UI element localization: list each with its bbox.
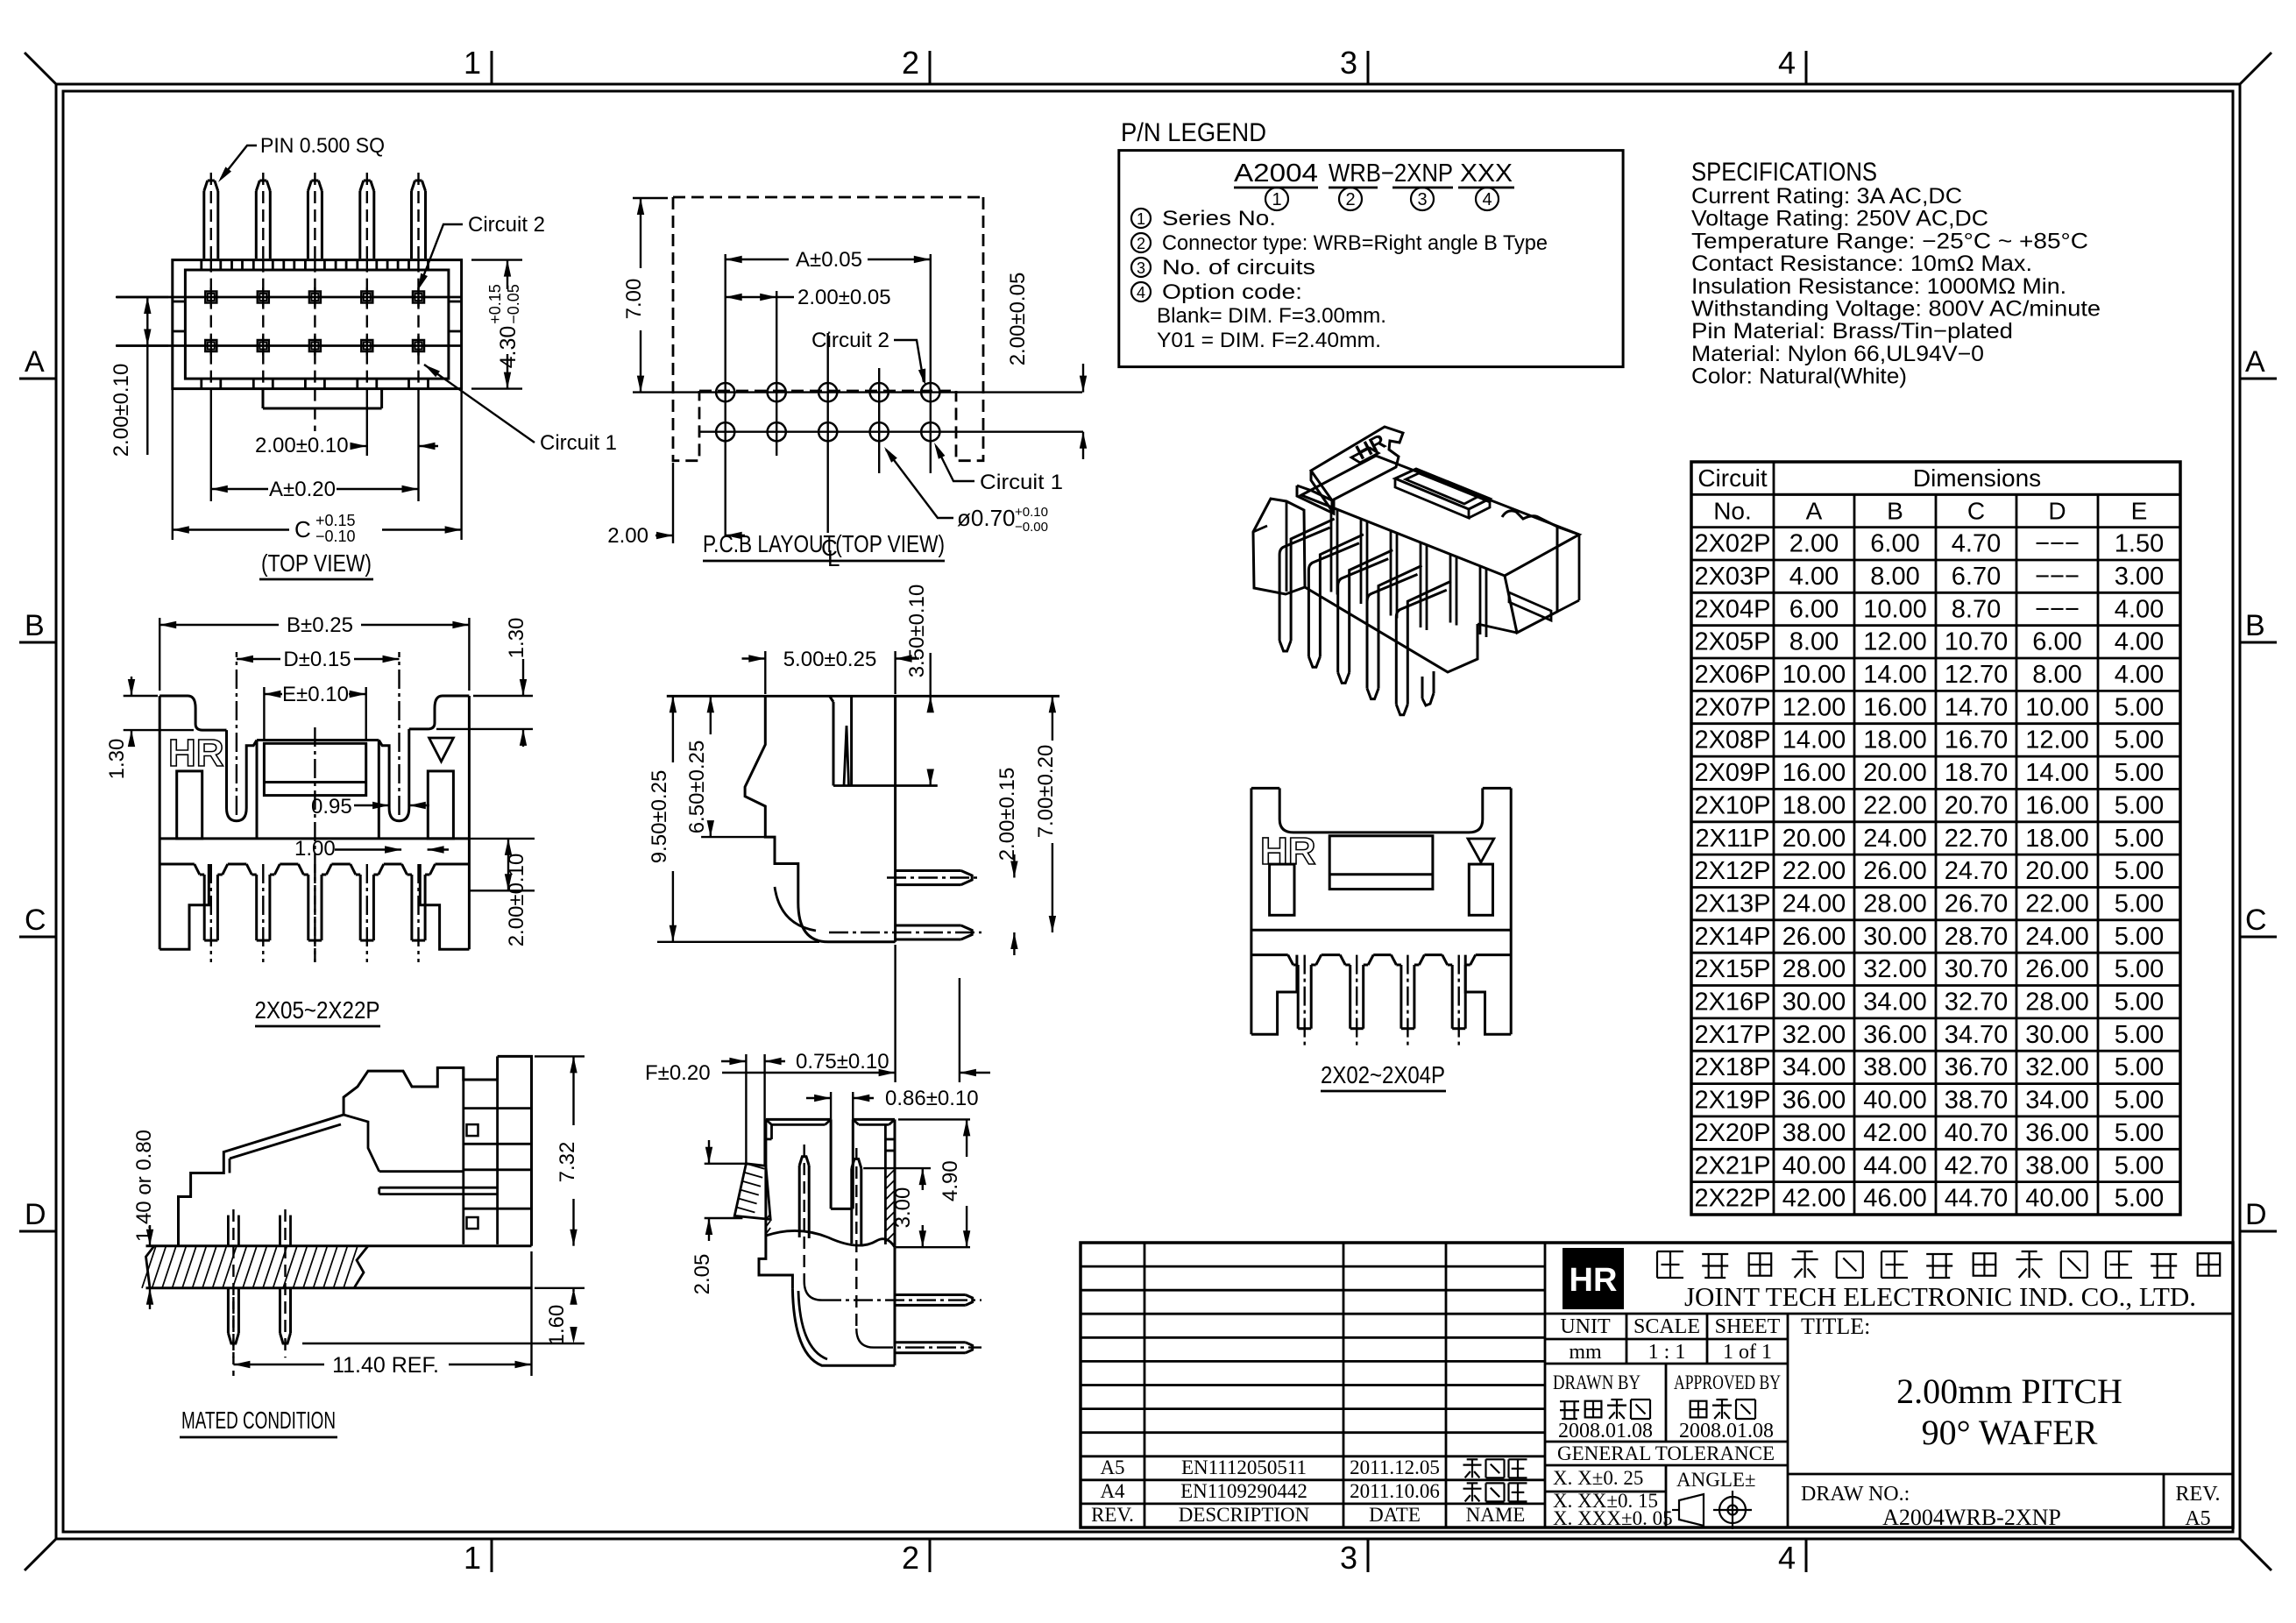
- svg-text:Blank= DIM. F=3.00mm.: Blank= DIM. F=3.00mm.: [1157, 304, 1386, 328]
- svg-text:2X20P: 2X20P: [1694, 1119, 1770, 1147]
- svg-text:5.00: 5.00: [2115, 1021, 2164, 1049]
- front view right wing pocket: [428, 771, 453, 839]
- svg-text:Current Rating: 3A AC,DC: Current Rating: 3A AC,DC: [1691, 184, 1962, 209]
- svg-text:26.00: 26.00: [1782, 923, 1846, 951]
- svg-text:2.00mm PITCH: 2.00mm PITCH: [1896, 1371, 2122, 1411]
- svg-text:5.00: 5.00: [2115, 693, 2164, 721]
- title block middle grid: [1545, 1313, 2233, 1315]
- svg-text:16.00: 16.00: [1782, 759, 1846, 787]
- svg-text:4: 4: [1137, 284, 1145, 301]
- svg-text:24.00: 24.00: [2025, 923, 2089, 951]
- svg-text:34.00: 34.00: [1863, 989, 1927, 1017]
- svg-text:0.95: 0.95: [311, 795, 352, 819]
- svg-text:SPECIFICATIONS: SPECIFICATIONS: [1691, 158, 1877, 187]
- svg-text:2.00: 2.00: [607, 524, 648, 548]
- isometric bent pins: [1291, 519, 1335, 641]
- svg-text:2: 2: [1137, 235, 1145, 252]
- isometric hinge flange: [1297, 485, 1334, 514]
- svg-text:D: D: [25, 1198, 46, 1231]
- dimension C +0.15 -0.10 (top view): [172, 389, 174, 540]
- isometric raised rim outer: [1395, 469, 1490, 509]
- svg-text:F±0.20: F±0.20: [645, 1061, 711, 1085]
- svg-text:Series No.: Series No.: [1162, 207, 1276, 230]
- top view bottom polarization tab: [262, 389, 265, 408]
- svg-text:2X11P: 2X11P: [1696, 825, 1770, 853]
- dimension 7.00 (pcb layout): [633, 197, 668, 199]
- svg-text:ANGLE±: ANGLE±: [1676, 1469, 1756, 1491]
- pcb layout pads (10 holes): [716, 383, 734, 401]
- svg-text:12.00: 12.00: [1782, 693, 1846, 721]
- zone tick top 4: [1805, 51, 1808, 84]
- svg-text:1.00: 1.00: [294, 837, 336, 861]
- svg-text:8.70: 8.70: [1952, 595, 2001, 623]
- front view cavity opening: [257, 739, 379, 741]
- svg-text:4.70: 4.70: [1952, 530, 2001, 558]
- svg-text:1.30: 1.30: [505, 618, 528, 659]
- svg-text:Circuit 1: Circuit 1: [980, 471, 1063, 494]
- isometric raised rim thickness: [1395, 478, 1469, 518]
- svg-text:2X08P: 2X08P: [1694, 726, 1770, 755]
- svg-text:4.30: 4.30: [496, 326, 521, 369]
- svg-text:C: C: [25, 904, 46, 937]
- svg-text:Y01 = DIM. F=2.40mm.: Y01 = DIM. F=2.40mm.: [1157, 329, 1381, 352]
- front view pins: [203, 875, 206, 940]
- svg-text:42.70: 42.70: [1945, 1152, 2009, 1180]
- svg-text:2X02~2X04P: 2X02~2X04P: [1321, 1061, 1445, 1088]
- svg-text:3: 3: [1137, 259, 1145, 277]
- svg-text:7.32: 7.32: [556, 1142, 579, 1183]
- svg-text:34.00: 34.00: [1782, 1053, 1846, 1081]
- zone tick bottom 3: [1367, 1539, 1370, 1572]
- dimension 1.60 (mated): [535, 1287, 585, 1289]
- pin section upper horizontal pin: [896, 1293, 966, 1296]
- svg-text:5.00: 5.00: [2115, 791, 2164, 819]
- svg-text:5.00: 5.00: [2115, 1185, 2164, 1213]
- dimension 2.00±0.15 (side section): [1013, 854, 1015, 878]
- svg-text:12.00: 12.00: [2025, 726, 2089, 755]
- dimension 2.00±0.10 bottom (top view): [358, 445, 367, 447]
- svg-text:32.00: 32.00: [1782, 1021, 1846, 1049]
- side section inner wall curve: [775, 887, 816, 931]
- svg-text:Dimensions: Dimensions: [1913, 464, 2041, 492]
- pcb layout pad column lines: [725, 254, 726, 536]
- dimension 2.00±0.05 top (pcb layout): [726, 296, 777, 298]
- svg-text:5.00: 5.00: [2115, 1053, 2164, 1081]
- dimension 1.30 left (front view): [124, 695, 158, 697]
- svg-text:−−−: −−−: [2035, 530, 2080, 558]
- svg-text:14.00: 14.00: [1782, 726, 1846, 755]
- svg-text:40.00: 40.00: [1863, 1087, 1927, 1115]
- svg-text:2X05P: 2X05P: [1694, 628, 1770, 656]
- svg-text:6.00: 6.00: [1870, 530, 1919, 558]
- front view 2X02 base line: [1251, 929, 1511, 932]
- svg-text:2008.01.08: 2008.01.08: [1679, 1420, 1774, 1442]
- svg-text:5.00: 5.00: [2115, 989, 2164, 1017]
- top view connector body outer outline: [173, 260, 462, 389]
- dimension B±0.25 (front view): [159, 618, 160, 691]
- svg-text:5.00: 5.00: [2115, 1087, 2164, 1115]
- svg-text:3.50±0.10: 3.50±0.10: [905, 585, 929, 678]
- svg-text:10.00: 10.00: [1863, 595, 1927, 623]
- svg-text:1.40 or 0.80: 1.40 or 0.80: [132, 1130, 156, 1242]
- revision table name column glyphs: [1471, 1459, 1473, 1478]
- svg-text:−−−: −−−: [2035, 563, 2080, 591]
- front view 2X02 polarity triangle: [1468, 839, 1494, 862]
- dimension 2.00±0.10 vertical left (top view): [116, 296, 168, 298]
- svg-text:14.70: 14.70: [1945, 693, 2009, 721]
- svg-text:4.90: 4.90: [939, 1160, 962, 1201]
- pcb layout dashed footprint outline: [673, 196, 983, 199]
- svg-text:5.00: 5.00: [2115, 890, 2164, 918]
- company name chinese characters: [1657, 1251, 1683, 1252]
- svg-text:EN1112050511: EN1112050511: [1181, 1456, 1307, 1478]
- isometric raised rim inner: [1406, 473, 1478, 504]
- svg-text:Withstanding Voltage: 800V: Withstanding Voltage: 800V AC/minute: [1691, 297, 2101, 322]
- frame corner diagonal top-left: [25, 53, 56, 84]
- svg-text:34.00: 34.00: [2025, 1087, 2089, 1115]
- svg-text:JOINT TECH ELECTRONIC IND.: JOINT TECH ELECTRONIC IND. CO., LTD.: [1684, 1281, 2196, 1312]
- svg-text:−0.10: −0.10: [315, 528, 356, 545]
- svg-text:+0.15: +0.15: [486, 284, 504, 324]
- dimension 3.50±0.10 (side section): [929, 653, 931, 696]
- svg-text:38.00: 38.00: [2025, 1152, 2089, 1180]
- svg-text:ø0.70: ø0.70: [957, 505, 1016, 531]
- isometric body top face: [1301, 456, 1579, 576]
- dimension 1.30 right (front view): [473, 695, 533, 697]
- dimension 11.40 REF. (mated): [232, 1297, 234, 1376]
- svg-text:Insulation Resistance: 1000M: Insulation Resistance: 1000MΩ Min.: [1691, 274, 2066, 299]
- top view top band ticks: [200, 260, 202, 270]
- pin section inner bend curve: [798, 1291, 827, 1359]
- svg-text:7.00±0.20: 7.00±0.20: [1034, 745, 1058, 839]
- front view center axis line: [314, 727, 315, 962]
- svg-text:2X10P: 2X10P: [1694, 791, 1770, 819]
- svg-text:SCALE: SCALE: [1633, 1315, 1700, 1338]
- svg-text:WRB−2XNP: WRB−2XNP: [1329, 159, 1453, 188]
- svg-text:2.00±0.10: 2.00±0.10: [505, 854, 528, 947]
- svg-text:46.00: 46.00: [1863, 1185, 1927, 1213]
- front view seat comb line with pin notches: [159, 863, 195, 866]
- svg-text:30.00: 30.00: [2025, 1021, 2089, 1049]
- isometric left mounting ear: [1253, 499, 1305, 594]
- svg-text:5.00: 5.00: [2115, 1152, 2164, 1180]
- svg-text:26.00: 26.00: [1863, 857, 1927, 885]
- svg-text:28.00: 28.00: [1782, 955, 1846, 983]
- side section lower pin: [896, 925, 961, 927]
- dimension 2.00 bottom left (pcb layout): [672, 463, 674, 543]
- dimension 2.00±0.10 right (front view): [469, 838, 535, 840]
- svg-text:C: C: [1967, 497, 1985, 524]
- svg-text:0.75±0.10: 0.75±0.10: [796, 1050, 889, 1074]
- third angle projection symbol: [1679, 1494, 1704, 1526]
- svg-text:X. XXX±0. 05: X. XXX±0. 05: [1553, 1507, 1673, 1529]
- svg-text:12.70: 12.70: [1945, 661, 2009, 689]
- svg-text:1.60: 1.60: [545, 1305, 569, 1346]
- isometric end cap slot: [1509, 592, 1551, 620]
- mated condition interface vertical lines: [462, 1067, 464, 1244]
- svg-text:3: 3: [1340, 45, 1357, 81]
- svg-text:16.00: 16.00: [2025, 791, 2089, 819]
- svg-text:1: 1: [464, 45, 481, 81]
- svg-text:26.70: 26.70: [1945, 890, 2009, 918]
- front view 2X02 right pocket: [1469, 864, 1492, 915]
- svg-text:26.00: 26.00: [2025, 955, 2089, 983]
- svg-text:SHEET: SHEET: [1715, 1315, 1781, 1338]
- svg-text:24.70: 24.70: [1945, 857, 2009, 885]
- svg-text:28.00: 28.00: [1863, 890, 1927, 918]
- side section body outline: [745, 696, 798, 903]
- svg-text:38.70: 38.70: [1945, 1087, 2009, 1115]
- dimensions table grid lines: [1691, 493, 2180, 496]
- svg-text:18.00: 18.00: [2025, 825, 2089, 853]
- svg-text:C: C: [294, 516, 311, 542]
- svg-text:TITLE:: TITLE:: [1801, 1314, 1870, 1339]
- frame corner diagonal bottom-left: [25, 1539, 56, 1570]
- svg-text:18.00: 18.00: [1863, 726, 1927, 755]
- dimensions table frame: [1691, 462, 2180, 1215]
- svg-text:3.00: 3.00: [2115, 563, 2164, 591]
- isometric latch plate hole: [1351, 448, 1378, 463]
- svg-text:30.70: 30.70: [1945, 955, 2009, 983]
- svg-text:36.00: 36.00: [1782, 1087, 1846, 1115]
- front view left wing pocket: [177, 771, 202, 839]
- front view polarity triangle: [429, 738, 454, 762]
- svg-text:Circuit 2: Circuit 2: [811, 329, 889, 352]
- svg-text:3: 3: [1340, 1540, 1357, 1576]
- svg-text:10.00: 10.00: [2025, 693, 2089, 721]
- svg-text:D±0.15: D±0.15: [283, 648, 351, 671]
- svg-text:14.00: 14.00: [1863, 661, 1927, 689]
- front view 2X02 outer shell outline: [1251, 787, 1279, 790]
- mated condition pcb hatch area: [146, 1246, 155, 1288]
- svg-text:Contact Resistance: 10mΩ Ma: Contact Resistance: 10mΩ Max.: [1691, 252, 2032, 276]
- dimension D±0.15 (front view): [236, 652, 237, 815]
- isometric front face lower edge: [1305, 587, 1478, 672]
- mated condition interface slots: [464, 1107, 532, 1109]
- top view contact squares row 1 and row 2: [205, 292, 216, 303]
- dimension 4.90 (pin section): [898, 1118, 970, 1120]
- frame corner diagonal bottom-right: [2240, 1539, 2271, 1570]
- mated condition contact beams: [379, 1187, 498, 1189]
- svg-text:No. of circuits: No. of circuits: [1162, 256, 1315, 280]
- svg-text:5.00: 5.00: [2115, 923, 2164, 951]
- front view right pin slot (U channel): [379, 729, 409, 821]
- svg-text:2.00±0.15: 2.00±0.15: [996, 768, 1019, 861]
- svg-text:D: D: [2245, 1198, 2267, 1231]
- top view connector body inner outline: [185, 270, 449, 379]
- side section top reference line: [667, 695, 1059, 698]
- pin section lower body outline: [759, 1236, 792, 1289]
- dimension 2.05 (pin section): [705, 1163, 747, 1165]
- svg-text:7.00: 7.00: [622, 279, 646, 320]
- svg-text:1 : 1: 1 : 1: [1648, 1341, 1686, 1364]
- svg-text:6.00: 6.00: [1789, 595, 1839, 623]
- svg-text:0.86±0.10: 0.86±0.10: [885, 1087, 979, 1110]
- svg-text:C: C: [2245, 904, 2267, 937]
- pcb layout pad row 2 line: [699, 431, 1083, 433]
- svg-text:4: 4: [1778, 1540, 1796, 1576]
- svg-text:32.00: 32.00: [2025, 1053, 2089, 1081]
- svg-text:−0.05: −0.05: [505, 284, 522, 324]
- svg-text:5.00: 5.00: [2115, 825, 2164, 853]
- P/N LEGEND box: [1119, 151, 1623, 367]
- svg-text:20.00: 20.00: [1782, 825, 1846, 853]
- svg-text:2X12P: 2X12P: [1694, 857, 1770, 885]
- svg-text:1.30: 1.30: [105, 739, 129, 780]
- front view base line: [159, 837, 469, 840]
- svg-text:11.40 REF.: 11.40 REF.: [332, 1353, 439, 1378]
- svg-text:2.00: 2.00: [1789, 530, 1839, 558]
- pcb layout pad row 1 line: [633, 391, 1082, 393]
- svg-text:DESCRIPTION: DESCRIPTION: [1179, 1504, 1310, 1526]
- svg-text:22.70: 22.70: [1945, 825, 2009, 853]
- svg-text:NAME: NAME: [1466, 1504, 1526, 1526]
- svg-text:2X06P: 2X06P: [1694, 661, 1770, 689]
- svg-text:22.00: 22.00: [2025, 890, 2089, 918]
- mated condition pcb board lines: [146, 1244, 532, 1247]
- frame corner diagonal top-right: [2240, 53, 2271, 84]
- isometric comb walls: [1330, 507, 1333, 592]
- svg-text:EN1109290442: EN1109290442: [1180, 1480, 1307, 1502]
- svg-text:GENERAL TOLERANCE: GENERAL TOLERANCE: [1557, 1442, 1775, 1464]
- svg-text:1.50: 1.50: [2115, 530, 2164, 558]
- svg-text:34.70: 34.70: [1945, 1021, 2009, 1049]
- front view 2X02 pins: [1297, 965, 1300, 1029]
- svg-text:2011.12.05: 2011.12.05: [1350, 1456, 1440, 1478]
- svg-text:2X07P: 2X07P: [1694, 693, 1770, 721]
- svg-text:D: D: [2048, 497, 2066, 524]
- svg-text:2: 2: [902, 1540, 919, 1576]
- svg-text:P/N LEGEND: P/N LEGEND: [1121, 118, 1266, 147]
- front view center tongue: [264, 743, 365, 795]
- svg-text:1: 1: [464, 1540, 481, 1576]
- mated condition shell inner diagonal: [230, 1124, 341, 1159]
- svg-text:A: A: [1806, 497, 1823, 524]
- svg-text:2011.10.06: 2011.10.06: [1350, 1480, 1440, 1502]
- svg-text:5.00: 5.00: [2115, 1119, 2164, 1147]
- svg-text:24.00: 24.00: [1782, 890, 1846, 918]
- svg-text:B: B: [25, 609, 45, 642]
- dimension 0.75±0.10 (pin section): [745, 1054, 747, 1164]
- pin section pin A: [798, 1166, 801, 1237]
- svg-text:DRAWN BY: DRAWN BY: [1553, 1371, 1641, 1393]
- svg-text:14.00: 14.00: [2025, 759, 2089, 787]
- svg-text:4: 4: [1482, 190, 1492, 209]
- svg-text:4.00: 4.00: [2115, 628, 2164, 656]
- svg-text:10.70: 10.70: [1945, 628, 2009, 656]
- svg-text:A±0.05: A±0.05: [796, 248, 862, 272]
- dimension 7.00±0.20 (side section): [1052, 696, 1053, 741]
- svg-text:+0.15: +0.15: [315, 512, 356, 529]
- svg-text:P.C.B LAYOUT(TOP VIEW): P.C.B LAYOUT(TOP VIEW): [703, 530, 945, 557]
- svg-text:B: B: [2245, 609, 2265, 642]
- pin section lower horizontal pin: [896, 1341, 966, 1343]
- svg-text:A±0.20: A±0.20: [269, 478, 336, 501]
- svg-text:8.00: 8.00: [1870, 563, 1919, 591]
- svg-text:20.00: 20.00: [1863, 759, 1927, 787]
- pin section left fin hatched: [734, 1164, 770, 1220]
- svg-text:36.00: 36.00: [1863, 1021, 1927, 1049]
- svg-text:2X03P: 2X03P: [1694, 563, 1770, 591]
- svg-text:2X15P: 2X15P: [1694, 955, 1770, 983]
- svg-text:5.00: 5.00: [2115, 726, 2164, 755]
- front view 2X02 left pocket: [1270, 864, 1294, 915]
- front view 2X02 center tongue: [1329, 836, 1433, 889]
- pin section center slot bottom: [831, 1208, 853, 1210]
- svg-text:Connector type: WRB=Right a: Connector type: WRB=Right angle B Type: [1162, 231, 1548, 255]
- svg-text:2X04P: 2X04P: [1694, 595, 1770, 623]
- dimension 4.30 +0.15 -0.05 (top view): [471, 259, 522, 260]
- svg-text:2X17P: 2X17P: [1694, 1021, 1770, 1049]
- svg-text:No.: No.: [1713, 497, 1752, 524]
- svg-text:32.70: 32.70: [1945, 989, 2009, 1017]
- svg-text:90° WAFER: 90° WAFER: [1922, 1413, 2098, 1452]
- svg-text:28.70: 28.70: [1945, 923, 2009, 951]
- top view pins (5 square posts): [202, 191, 205, 259]
- dimension F±0.20 (side section): [894, 945, 896, 1082]
- svg-text:PIN 0.500 SQ: PIN 0.500 SQ: [260, 134, 385, 158]
- svg-text:2.05: 2.05: [691, 1254, 714, 1295]
- dimension 6.50±0.25 (side section): [701, 836, 765, 838]
- svg-text:REV.: REV.: [1091, 1504, 1134, 1526]
- top view bottom band ticks: [200, 379, 202, 389]
- svg-text:2.00±0.10: 2.00±0.10: [110, 364, 133, 457]
- svg-text:Pin Material: Brass/Tin−plat: Pin Material: Brass/Tin−plated: [1691, 319, 2013, 344]
- svg-text:Circuit: Circuit: [1697, 464, 1768, 492]
- zone tick bottom 1: [491, 1539, 493, 1572]
- svg-text:24.00: 24.00: [1863, 825, 1927, 853]
- zone tick top 1: [491, 51, 493, 84]
- svg-text:XXX: XXX: [1460, 159, 1513, 188]
- svg-text:32.00: 32.00: [1863, 955, 1927, 983]
- svg-text:18.00: 18.00: [1782, 791, 1846, 819]
- svg-text:8.00: 8.00: [1789, 628, 1839, 656]
- svg-text:−−−: −−−: [2035, 595, 2080, 623]
- svg-text:HR: HR: [168, 732, 224, 775]
- dimension 3.00 (pin section): [863, 1167, 931, 1169]
- front view left pin slot (U channel): [227, 730, 258, 821]
- pin section right wall hatch: [885, 1169, 895, 1179]
- svg-text:16.00: 16.00: [1863, 693, 1927, 721]
- svg-text:2X21P: 2X21P: [1694, 1152, 1770, 1180]
- svg-text:30.00: 30.00: [1782, 989, 1846, 1017]
- svg-text:2: 2: [1345, 190, 1355, 209]
- svg-text:40.70: 40.70: [1945, 1119, 2009, 1147]
- svg-text:Temperature Range: −25°C ~: Temperature Range: −25°C ~ +85°C: [1691, 229, 2088, 253]
- svg-text:36.00: 36.00: [2025, 1119, 2089, 1147]
- svg-text:38.00: 38.00: [1782, 1119, 1846, 1147]
- svg-text:E±0.10: E±0.10: [282, 683, 349, 706]
- svg-text:44.00: 44.00: [1863, 1152, 1927, 1180]
- dimension 2.00±0.05 right rotated (pcb layout): [1082, 364, 1084, 393]
- svg-text:4.00: 4.00: [1789, 563, 1839, 591]
- svg-text:Circuit 1: Circuit 1: [540, 431, 617, 455]
- svg-text:6.70: 6.70: [1952, 563, 2001, 591]
- svg-text:4.00: 4.00: [2115, 661, 2164, 689]
- side section latch spike: [844, 726, 849, 786]
- svg-text:6.50±0.25: 6.50±0.25: [685, 741, 709, 834]
- svg-text:2: 2: [902, 45, 919, 81]
- svg-text:(TOP VIEW): (TOP VIEW): [261, 549, 372, 577]
- svg-text:2X19P: 2X19P: [1694, 1087, 1770, 1115]
- dimension 9.50±0.25 (side section): [657, 941, 819, 943]
- dimension A±0.05 (pcb layout): [726, 259, 789, 260]
- svg-text:REV.: REV.: [2176, 1483, 2221, 1506]
- svg-text:2X18P: 2X18P: [1694, 1053, 1770, 1081]
- svg-text:1 of 1: 1 of 1: [1723, 1341, 1772, 1364]
- svg-text:X. X±0. 25: X. X±0. 25: [1553, 1467, 1643, 1489]
- title block outer frame: [1081, 1243, 2233, 1527]
